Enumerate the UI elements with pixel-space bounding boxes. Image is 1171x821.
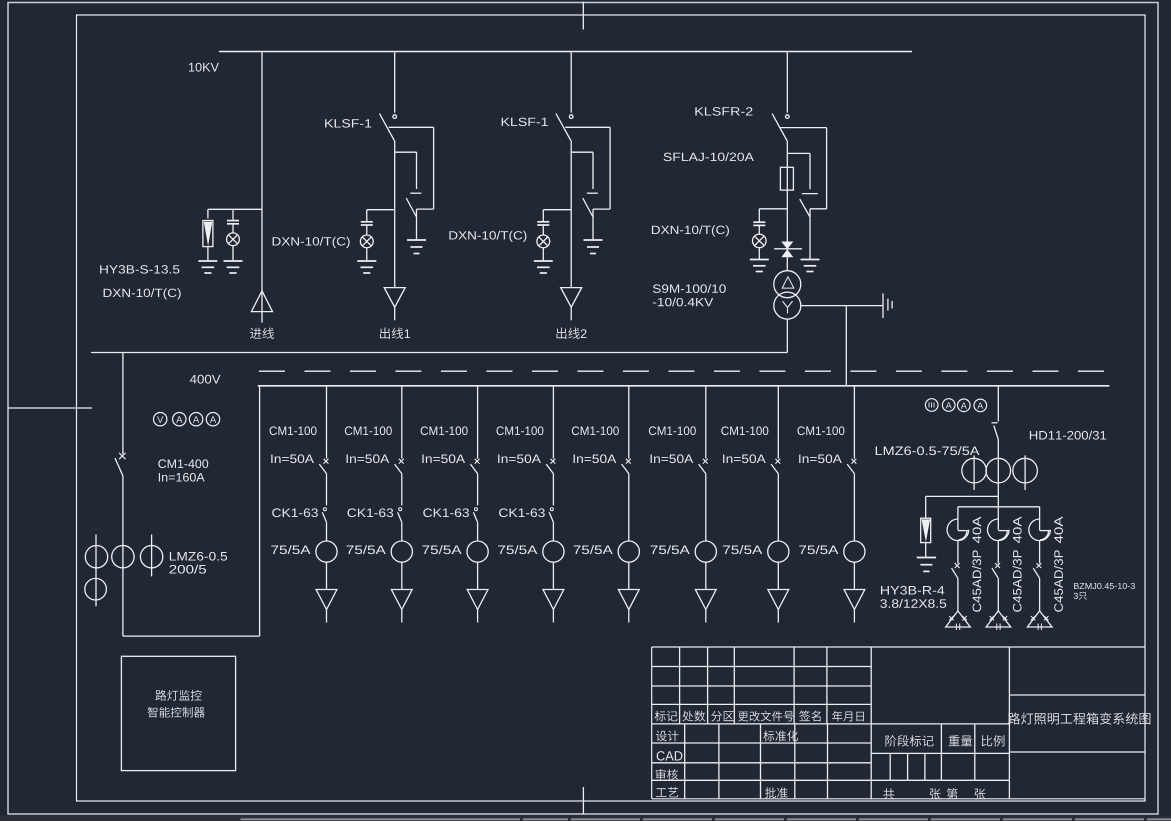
label 10KV [189,63,219,72]
wire arrow tail 2 [401,610,403,623]
meter A2 [189,413,202,426]
label pizhun [765,787,788,798]
wire [925,543,927,558]
wire bypass top [565,126,610,128]
CT LMZ6-0.5-75/5A c2 [986,458,1011,483]
main wire D upper [786,141,788,168]
capacitor divider plates [361,221,373,223]
title block row line 5 [652,742,872,744]
label DXN-10/T(C) [273,237,350,248]
incoming arrow [251,291,272,312]
title block left edge [651,647,653,799]
wire earth-switch tap [395,151,417,153]
earth switch blade [406,198,416,217]
indicator lamp [360,235,373,248]
wire lamp drop D [758,209,760,222]
capacitor divider plates [537,221,549,223]
wire to transformer [786,257,788,271]
label outgoing [380,328,410,339]
wire [758,247,760,259]
breaker cross 5 [626,459,631,464]
wire bypass bottom [417,208,434,210]
outgoing arrow feeder 7 [768,590,789,610]
label gongyi [656,787,678,798]
CT stub left M [973,455,975,490]
label zhineng kongzhiqi [148,707,205,718]
wire arrow tail 7 [777,610,779,623]
outgoing arrow feeder 4 [543,590,564,610]
CT stub right M [1024,455,1026,490]
wire below MCB [1039,541,1041,564]
MCB C45AD/3P arc [1029,519,1051,541]
label jinxian [250,328,274,339]
wire bypass right D [826,128,828,209]
LV dashed line [259,370,1107,372]
label 75/5A f3 [422,545,461,554]
MCB pie line [1040,530,1051,532]
CM1-100 feeder 7 wire [777,386,779,459]
wire arrow tail 5 [628,610,630,623]
neutral drop to LV bus [845,306,847,386]
capacitor divider plates [227,220,239,222]
CT stub left [95,535,97,607]
label chushu [682,711,705,722]
wire 3 [477,562,479,589]
label In=50A f2 [347,454,390,463]
indicator lamp [537,235,550,248]
CT LMZ6-0.5-75/5A c3 [1013,458,1038,483]
breaker blade 3 [470,464,477,474]
breaker cross 3 [475,459,480,464]
breaker blade 2 [395,464,402,474]
title area top line [1009,694,1145,696]
capacitor BZMJ triangle [1027,611,1052,627]
label In=50A f4 [498,454,541,463]
outgoing arrow feeder 6 [695,590,716,610]
ground [198,260,217,262]
CK1-63 contact 1 [323,508,326,511]
CT 75/5A feeder 3 [467,541,488,562]
wire 1 [326,474,328,506]
capacitor terminal marks [1031,616,1035,620]
label zhongliang [949,735,973,746]
capacitor terminal marks [949,616,953,620]
title block row line 1 [652,666,872,668]
top centre fold mark [582,2,584,30]
wire [997,458,999,530]
wire 5 [628,474,630,541]
wire bypass bottom D [810,208,827,210]
label DXN-10/T(C) D [652,225,729,236]
switch blade KLSF-1 [556,114,571,141]
CM1-100 feeder 4 wire [552,386,554,459]
switch blade [1033,568,1039,578]
surge arrester bowtie [781,242,793,250]
label CK1-63 f1 [272,508,318,517]
CM1-100 feeder 2 wire [401,386,403,459]
wire capacitor drop [232,209,234,220]
label HD11-200/31 [1030,431,1106,440]
title area bottom line [1009,751,1145,753]
stage mark small boxes [889,753,891,780]
wire [207,247,209,261]
label CM1-100 f7 [721,426,768,435]
wire 5 [628,562,630,589]
CM1-100 feeder 6 wire [705,386,707,459]
label 75/5A f8 [799,545,838,554]
label 75/5A f2 [347,545,386,554]
label LMZ6-0.5-75/5A [876,446,980,455]
bottom strip background [0,816,1171,821]
label biaoji [655,711,678,722]
label jieduan biaoji [886,735,934,746]
capacitor BZMJ triangle [946,611,971,627]
stage mark row line [871,752,1009,754]
earth switch blade [583,198,593,217]
wire 7 [777,562,779,589]
wire [366,225,368,236]
wire earth-switch drop [592,152,594,189]
wire 3 [477,522,479,541]
fixed contact D [786,115,790,119]
breaker blade 4 [546,464,553,474]
label CM1-400 [158,459,208,468]
CT stub right [151,535,153,577]
breaker blade 8 [847,464,854,474]
wire bypass right [609,127,611,209]
CT 75/5A feeder 8 [844,541,865,562]
outgoing arrow feeder 1 [316,590,337,610]
meter A5 [958,399,971,412]
wire lamp branch D [759,208,787,210]
label C45AD/3P vertical [1013,550,1022,612]
CK1-63 blade 3 [473,512,477,522]
breaker cross 6 [703,459,708,464]
wire from bus [394,52,396,113]
capacitor terminal marks [990,616,994,620]
capacitor divider plates D [753,221,765,223]
label 40A vertical [1054,517,1063,544]
capacitor rail [958,506,1040,508]
CM1-100 feeder 5 wire [628,386,630,459]
wire [758,225,760,234]
wire bypass right [433,127,435,209]
bottom centre fold mark [582,787,584,815]
CT LMZ6-0.5-75/5A c1 [962,458,987,483]
wire [542,225,544,236]
wire below MCB [997,541,999,564]
wire bypass top [389,126,434,128]
MCB pie line [998,530,1009,532]
label bili [982,735,1005,746]
drawing title ludeng zhaoming gongcheng xiangbian xitongtu [1008,712,1150,724]
indicator lamp [227,233,240,246]
label 75/5A f7 [723,545,762,554]
meter A6 [974,399,987,412]
neutral wire [801,305,883,307]
HD11 switch blade [994,426,999,440]
CM1-100 feeder 1 wire [326,386,328,459]
street lamp controller box [121,656,235,770]
wire earth-switch tap [571,151,593,153]
wire arrow tail 1 [326,610,328,623]
title block divider TBR [870,647,872,799]
CT 75/5A feeder 6 [695,541,716,562]
ground HY3B-R-4 [917,557,936,559]
label DXN-10/T(C) [449,231,526,242]
ground [357,260,376,262]
fixed contact [393,115,397,119]
breaker cross 7 [775,459,780,464]
LV feed wire [91,352,787,354]
CK1-63 blade 1 [322,512,326,522]
title block upper columns [679,647,681,724]
CM1-100 feeder 8 wire [853,386,855,459]
label 75/5A f4 [498,545,537,554]
label In=50A f3 [422,454,465,463]
label C45AD/3P vertical [972,550,981,612]
breaker blade 6 [699,464,706,474]
label CM1-100 f6 [649,426,696,435]
wire 6 [705,562,707,589]
label CK1-63 f4 [499,508,545,517]
earth switch fixed contact bar [587,192,598,194]
label 75/5A f1 [271,545,310,554]
stage mark col lines [940,724,942,780]
label In=50A f6 [651,454,694,463]
wire 8 [853,474,855,541]
title block lower columns [684,724,686,799]
wire bypass top D [780,127,826,129]
wire arrow tail [570,307,572,320]
wire 7 [777,474,779,541]
CT 75/5A feeder 4 [543,541,564,562]
wire arrow tail [394,307,396,320]
indicator lamp D [753,234,767,248]
branch wire drop [1039,507,1041,530]
arrester branch wire [926,495,999,497]
wire arrester drop [207,209,209,218]
title block row line 3 [652,703,872,705]
MCB C45AD/3P arc [987,519,1009,541]
wire arrow tail 6 [705,610,707,623]
wire [366,247,368,261]
branch wire drop [957,507,959,530]
CT LMZ6 c2 [112,546,134,568]
wire [1039,578,1041,611]
wire 3 [477,474,479,506]
wire lamp branch [543,209,571,211]
wire lamp drop [366,210,368,222]
CT LMZ6 c3 [140,546,162,568]
HD11 switch hinge tick [992,422,998,424]
ground [534,260,553,262]
title block row line 2 [652,685,872,687]
MCB C45AD/3P arc [947,519,969,541]
label In=50A f8 [799,454,842,463]
wire to earth [592,209,594,239]
wire 1 [326,562,328,589]
wire [232,224,234,233]
label CK1-63 f3 [423,508,469,517]
label In=50A f1 [271,454,314,463]
wire 2 [401,522,403,541]
CT LMZ6 c1 [85,546,107,568]
label CM1-100 f2 [345,426,392,435]
label 3.8/12X8.5 [880,599,946,608]
label nianyueri [832,711,864,721]
title block row line 6 [652,762,872,764]
capacitor BZMJ triangle [986,611,1011,627]
outgoing arrow [384,288,405,308]
CK1-63 contact 3 [475,508,478,511]
MCB pie line [958,530,969,532]
label 40A vertical [973,517,982,544]
meter A4 [942,399,955,412]
wire 8 [853,562,855,589]
wire [542,247,544,261]
switch blade KLSF-1 [380,114,395,141]
wire to earth [416,209,418,239]
wire [122,475,124,636]
wire bypass bottom [593,208,610,210]
wire 1 [326,522,328,541]
ground earthing switch D [801,259,820,261]
wire 2 [401,474,403,506]
label HY3B-S-13.5 [100,265,179,273]
breaker blade CM1-400 [115,458,123,475]
label In=50A f5 [574,454,617,463]
label sheji [656,730,679,741]
label outgoing [557,328,587,339]
label shenhe [656,769,678,780]
title block bottom line [652,798,1145,800]
switch cross [1037,563,1042,568]
wire [957,578,959,611]
CM1-400 feeder wire [122,353,124,455]
arrester drop [925,496,927,518]
label HY3B-R-4 [881,586,944,595]
CK1-63 blade 4 [549,512,553,522]
ground earthing switch [407,239,426,241]
CK1-63 contact 4 [550,508,553,511]
meter A3 [206,413,219,426]
secondary wire down [786,319,788,352]
wire from bus [570,52,572,113]
label In=50A f7 [723,454,766,463]
label LMZ6-0.5 [170,552,227,561]
label CM1-100 f3 [421,426,468,435]
breaker cross CM1-400 [119,453,125,459]
breaker cross 2 [399,459,404,464]
main wire D lower [786,190,788,241]
title block outer top [652,646,1145,648]
CK1-63 blade 2 [398,512,402,522]
surge arrester HY3B-R-4 [921,518,931,542]
breaker blade 5 [622,464,629,474]
label 75/5A f6 [651,545,690,554]
main wire [394,141,396,288]
label DXN-10/T(C) A [104,288,181,299]
outgoing arrow feeder 2 [391,590,412,610]
wire lamp branch [367,209,395,211]
CT 75/5A feeder 1 [316,541,337,562]
outgoing arrow feeder 5 [618,590,639,610]
label qianming [799,711,820,722]
wire 6 [705,474,707,541]
wire to earth D [809,209,811,259]
label CM1-100 f1 [270,426,317,435]
wire earth-switch drop [416,152,418,189]
wire arrow tail 3 [477,610,479,623]
breaker cross 1 [324,459,329,464]
CM1-100 feeder 3 wire [477,386,479,459]
400V busbar [258,385,1110,387]
transformer secondary winding [774,292,801,319]
metering feeder wire [997,386,999,422]
earth fixed contact bar D [802,193,818,195]
surge arrester HY3B-S-13.5 [203,221,213,247]
title block divider MID [1008,647,1010,799]
fixed contact [569,115,573,119]
cabinet outline bottom [123,635,260,637]
label KLSF-1 [502,118,548,126]
label KLSFR-2 [695,107,752,115]
fuse SFLAJ-10/20A [780,167,793,190]
label 400V [190,375,221,384]
wire [997,440,999,459]
ground [750,259,769,261]
wire lamp drop [542,210,544,222]
label KLSF-1 [325,119,371,127]
label 40A vertical [1013,517,1022,544]
wire 2 [401,562,403,589]
CK1-63 contact 2 [399,508,402,511]
label CM1-100 f5 [572,426,619,435]
outgoing arrow feeder 8 [844,590,865,610]
label BZMJ0.45-10-3 [1074,583,1135,589]
meter V [154,413,167,426]
left fold mark [8,407,92,409]
bottom strip line [241,818,521,820]
wire earth drop D [809,153,811,189]
incoming feeder wire [261,52,263,323]
cabinet outline right [259,386,261,636]
label 75/5A f5 [574,545,613,554]
wire branch to arrester/lamp [208,208,262,210]
title block row line 4 [652,723,1010,725]
breaker cross 8 [852,459,857,464]
earth switch blade D [800,199,810,217]
switch cross [955,563,960,568]
breaker blade 7 [771,464,778,474]
CT 75/5A feeder 7 [768,541,789,562]
label 3 zhi [1074,592,1087,600]
label In=160A [159,473,205,482]
label ludeng jiankong [155,690,201,701]
meter A1 [173,413,186,426]
switch blade KLSFR-2 [772,114,787,141]
label CK1-63 f2 [348,508,394,517]
CT 75/5A feeder 5 [618,541,639,562]
label fenqu [711,711,733,722]
CT 75/5A feeder 2 [391,541,412,562]
label S9M-100/10 [653,284,726,293]
label biaozhunhua [763,730,798,741]
wire arrow tail 8 [853,610,855,623]
CT LMZ6 c4 [85,578,107,600]
switch blade [992,568,998,578]
